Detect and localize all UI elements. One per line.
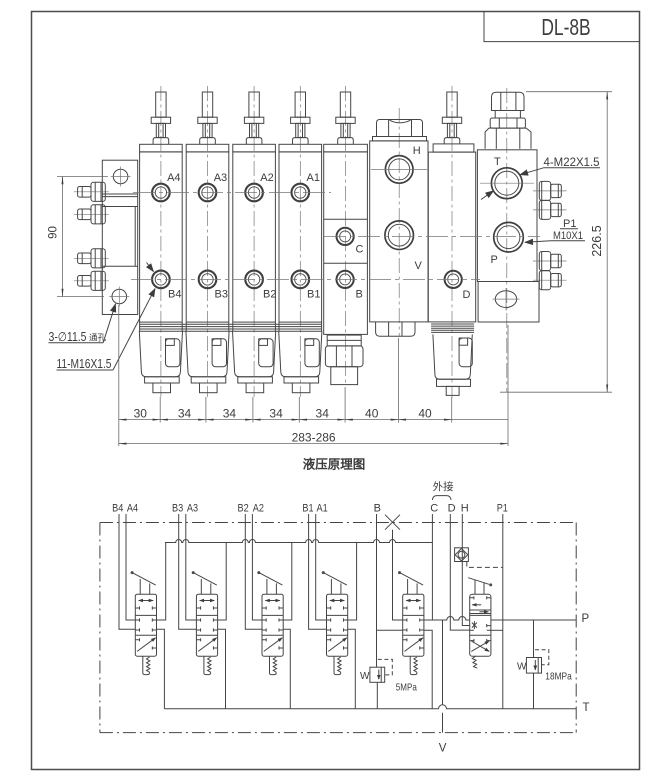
svg-text:11-M16X1.5: 11-M16X1.5 <box>57 357 112 371</box>
svg-text:4-M22X1.5: 4-M22X1.5 <box>544 157 600 169</box>
svg-text:34: 34 <box>178 406 192 420</box>
B inlet line to relief <box>377 514 403 667</box>
svg-text:T: T <box>583 702 590 714</box>
P1 line <box>502 514 504 709</box>
C carry-over line <box>424 514 433 620</box>
svg-text:34: 34 <box>269 406 283 420</box>
svg-text:V: V <box>415 260 423 272</box>
svg-text:B1: B1 <box>302 503 313 515</box>
svg-text:P1: P1 <box>497 503 508 515</box>
port B1 <box>292 271 310 289</box>
svg-text:B2: B2 <box>263 289 276 301</box>
valve6 to P1 connection <box>491 629 503 631</box>
svg-text:A1: A1 <box>307 172 320 184</box>
end section bottom hole <box>493 288 520 311</box>
port V <box>385 221 423 272</box>
row centerline C/V/P <box>324 235 540 237</box>
label drop lines section 3 <box>245 514 262 629</box>
svg-text:DL-8B: DL-8B <box>541 15 590 41</box>
port B3 <box>199 271 217 289</box>
C/B section bottom plug <box>325 335 363 385</box>
svg-text:A1: A1 <box>317 503 328 515</box>
plugged port X <box>385 515 400 530</box>
svg-text:B: B <box>356 289 363 301</box>
svg-text:H: H <box>413 145 421 157</box>
P pressure line with hops <box>424 617 470 620</box>
svg-text:D: D <box>448 503 456 515</box>
mounting plate <box>102 160 137 314</box>
V line <box>442 620 444 705</box>
svg-text:B3: B3 <box>172 503 183 515</box>
row centerline B <box>131 278 480 280</box>
svg-text:5MPa: 5MPa <box>396 682 417 694</box>
svg-text:W: W <box>517 662 527 673</box>
tank drops from valves <box>157 629 165 709</box>
port H <box>371 145 427 183</box>
section edge lines through strip <box>140 322 322 331</box>
valve V3 B2A2 <box>257 571 283 675</box>
svg-text:18MPa: 18MPa <box>545 671 572 683</box>
mounting hole bottom <box>109 287 129 307</box>
svg-text:P: P <box>491 254 498 266</box>
row centerline A <box>133 192 331 194</box>
section C/B <box>324 86 368 384</box>
svg-text:P: P <box>582 613 590 625</box>
svg-text:M10X1: M10X1 <box>553 230 583 242</box>
bottom hatched strip sections 1-4 <box>140 324 322 331</box>
title block <box>484 12 640 42</box>
X drop line to valve5 <box>393 530 403 620</box>
feed rail with hops <box>165 540 433 543</box>
svg-text:30: 30 <box>134 406 148 420</box>
relief valve 5MPa <box>360 659 417 708</box>
leader 4-M22X1.5 <box>481 157 600 200</box>
bottom spring caps <box>139 331 182 393</box>
port A4 <box>152 184 170 202</box>
schematic enclosure dash-dot <box>100 523 576 733</box>
relief valve tower on end section <box>485 92 531 149</box>
D section bottom hatched strip <box>431 324 474 332</box>
check valve on H line <box>455 548 469 562</box>
svg-text:3-∅11.5: 3-∅11.5 <box>49 330 87 344</box>
svg-text:A2: A2 <box>253 503 264 515</box>
valve V4 B1A1 <box>322 571 348 675</box>
section D <box>428 86 475 398</box>
work section A3/B3 <box>186 86 229 397</box>
svg-text:C: C <box>356 244 364 256</box>
svg-text:B3: B3 <box>215 289 228 301</box>
svg-text:283-286: 283-286 <box>292 431 336 445</box>
dim 90 <box>48 177 109 297</box>
label drop lines section 1 <box>119 514 135 629</box>
svg-text:H: H <box>461 503 469 515</box>
port B <box>337 271 363 301</box>
mounting hole top <box>111 167 131 187</box>
leader 3-d11.5 <box>49 304 116 344</box>
port C <box>337 228 364 256</box>
valve V2 B3A3 <box>192 571 218 675</box>
svg-text:A4: A4 <box>167 172 180 184</box>
svg-text:B: B <box>374 503 381 515</box>
svg-text:P1: P1 <box>563 218 576 230</box>
H/V bottom tabs <box>376 322 415 336</box>
T return rail with hop at V <box>164 705 576 709</box>
svg-text:B1: B1 <box>307 289 320 301</box>
svg-text:34: 34 <box>223 406 237 420</box>
H line <box>462 514 469 626</box>
svg-text:A2: A2 <box>260 172 273 184</box>
waijie bracket <box>432 496 451 500</box>
work section A1/B1 <box>279 86 322 397</box>
work section A2/B2 <box>233 86 276 397</box>
svg-text:B4: B4 <box>112 503 123 515</box>
svg-text:226.5: 226.5 <box>590 225 604 256</box>
svg-text:外接: 外接 <box>433 480 454 493</box>
svg-text:T: T <box>494 156 501 168</box>
section H/V <box>370 108 428 336</box>
port B2 <box>245 271 263 289</box>
svg-text:34: 34 <box>316 406 330 420</box>
label drop lines section 4 <box>309 514 327 629</box>
svg-text:40: 40 <box>365 406 379 420</box>
svg-text:90: 90 <box>48 226 60 239</box>
end section T/P <box>477 88 539 392</box>
valve V6 P1 <box>468 578 492 669</box>
D section bottom cap <box>433 334 472 395</box>
pilot dashed line to P1 <box>467 562 503 568</box>
schematic port labels row <box>112 503 508 515</box>
svg-text:V: V <box>439 743 447 755</box>
svg-text:40: 40 <box>418 406 432 420</box>
port P <box>491 222 524 266</box>
leader P1 M10X1 <box>525 218 585 242</box>
label drop lines section 2 <box>179 514 197 629</box>
svg-text:D: D <box>463 289 471 301</box>
port D <box>445 271 471 301</box>
dim row 30/34/34/34/34/40/40 <box>119 305 508 446</box>
left bolts <box>74 182 109 201</box>
D line <box>450 514 469 630</box>
dim 283-286 <box>119 431 508 445</box>
feed drops to valve inlets <box>157 543 166 621</box>
work section A4/B4 <box>140 86 183 397</box>
relief valve 18MPa <box>517 620 572 709</box>
valve V1 B4A4 <box>131 571 157 675</box>
port T <box>480 156 534 199</box>
svg-text:A4: A4 <box>127 503 138 515</box>
svg-text:B4: B4 <box>168 289 181 301</box>
dim 226.5 <box>500 92 612 393</box>
port B4 <box>152 271 170 289</box>
svg-text:液压原理图: 液压原理图 <box>303 457 366 472</box>
svg-text:W: W <box>360 671 370 682</box>
port A1 <box>292 184 310 202</box>
port A3 <box>199 184 217 202</box>
valve V5 B <box>398 571 424 675</box>
right studs <box>533 181 567 200</box>
svg-text:A3: A3 <box>214 172 227 184</box>
leader 11-M16X1.5 <box>57 263 156 372</box>
svg-text:B2: B2 <box>238 503 249 515</box>
svg-text:C: C <box>430 503 438 515</box>
port A2 <box>245 184 263 202</box>
svg-text:A3: A3 <box>187 503 198 515</box>
